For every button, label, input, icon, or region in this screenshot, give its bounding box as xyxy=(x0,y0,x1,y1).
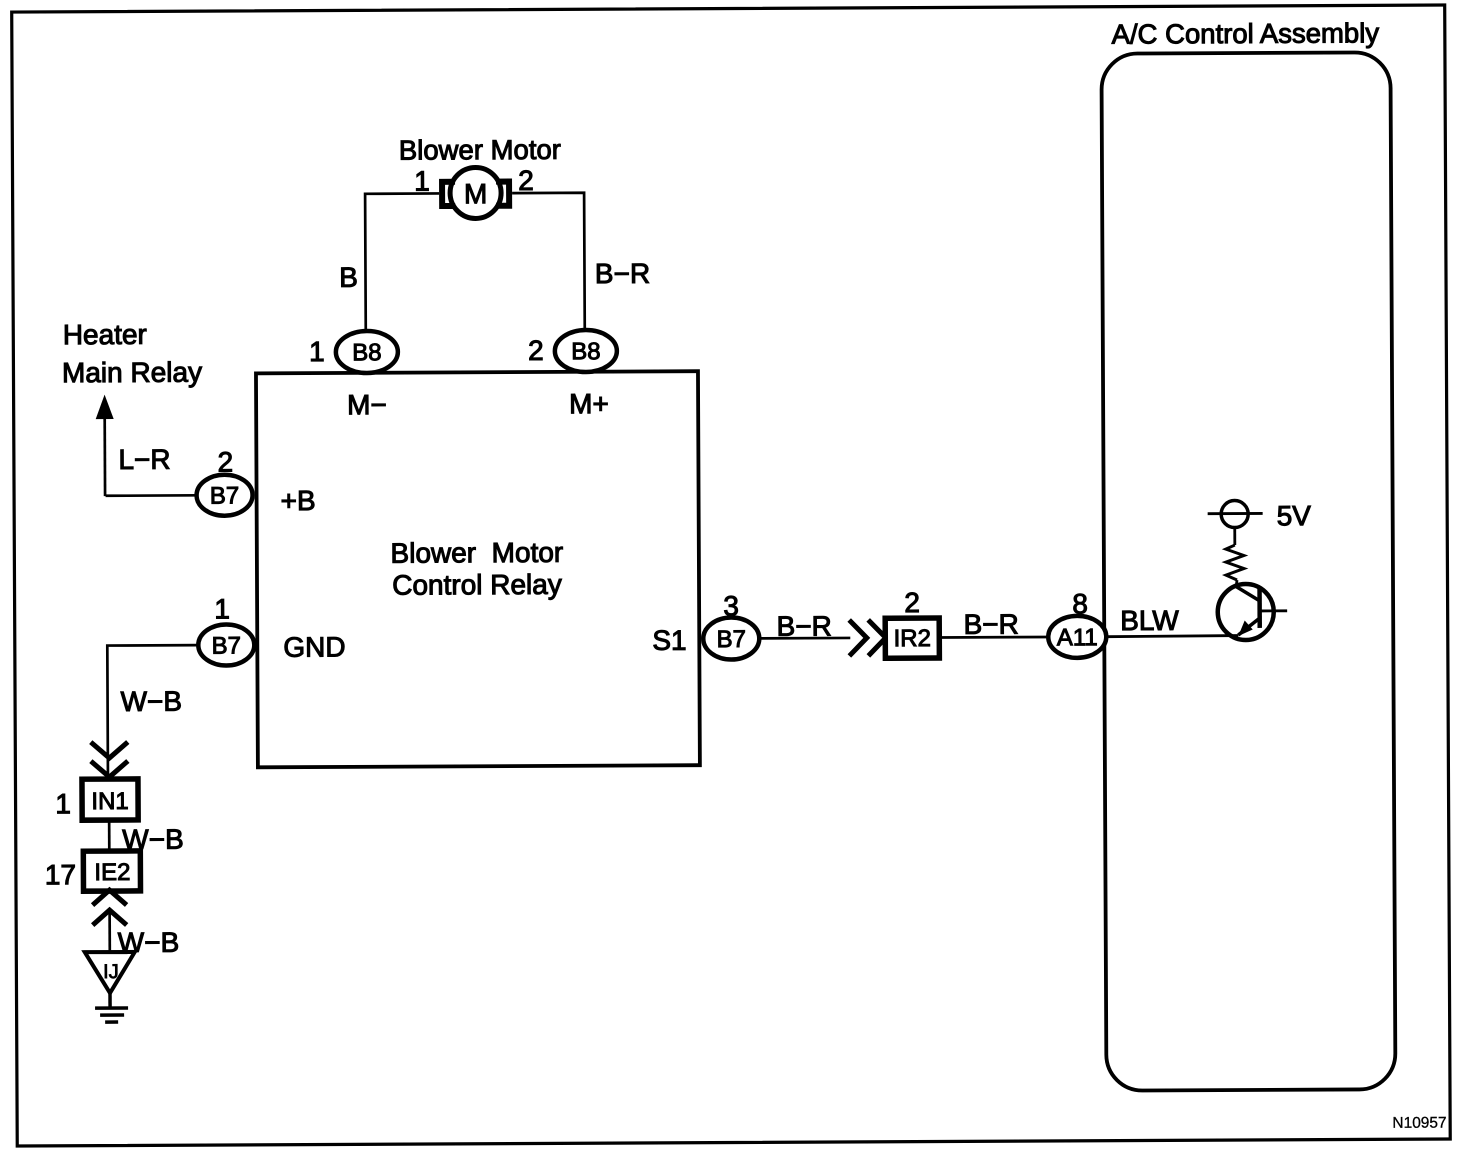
svg-text:Main Relay: Main Relay xyxy=(62,357,202,389)
svg-text:M: M xyxy=(464,178,487,209)
connector B7 pin2 xyxy=(196,475,252,516)
connector IN1 xyxy=(82,779,138,820)
5V supply xyxy=(1208,500,1263,527)
svg-text:2: 2 xyxy=(904,587,920,618)
motor M1 (Blower Motor) xyxy=(442,167,509,218)
resistor R1 (pull-up) xyxy=(1226,545,1244,580)
wire B7 pin1 to IN1 xyxy=(107,645,199,778)
svg-text:GND: GND xyxy=(283,631,345,662)
wire A11 to transistor emitter xyxy=(1106,636,1238,637)
svg-text:B7: B7 xyxy=(212,632,241,659)
svg-text:A/C Control Assembly: A/C Control Assembly xyxy=(1112,17,1380,49)
svg-text:IR2: IR2 xyxy=(894,625,931,652)
svg-text:17: 17 xyxy=(45,859,76,890)
svg-text:IE2: IE2 xyxy=(94,859,130,886)
splice chevrons (wire into IN1) xyxy=(91,742,128,777)
svg-text:1: 1 xyxy=(414,165,430,196)
wire IR2 to A11 xyxy=(939,636,1049,639)
connector B7 pin3 xyxy=(703,617,759,659)
svg-text:Control Relay: Control Relay xyxy=(392,569,562,601)
relay U1 (Blower Motor Control Relay) xyxy=(256,371,700,767)
svg-text:2: 2 xyxy=(218,446,234,477)
svg-text:1: 1 xyxy=(309,336,325,367)
wire IE2 to IJ ground xyxy=(108,910,111,952)
svg-text:8: 8 xyxy=(1072,588,1088,619)
svg-text:L−R: L−R xyxy=(118,444,170,475)
A/C Control Assembly block xyxy=(1101,52,1395,1090)
svg-text:B: B xyxy=(339,262,358,293)
connector IR2 xyxy=(885,618,939,658)
svg-text:S1: S1 xyxy=(652,625,686,656)
svg-text:B7: B7 xyxy=(210,482,239,509)
connector B7 pin1 xyxy=(198,624,254,665)
svg-text:A11: A11 xyxy=(1057,624,1098,651)
wire B7 pin2 to heater main relay xyxy=(106,494,197,497)
svg-text:B7: B7 xyxy=(717,626,746,653)
wire 5V to resistor xyxy=(1233,528,1236,545)
svg-text:B8: B8 xyxy=(352,339,381,366)
svg-text:Blower Motor: Blower Motor xyxy=(390,537,563,569)
svg-text:M−: M− xyxy=(347,389,387,420)
ground connector IJ xyxy=(85,952,135,993)
connector B8 pin2 xyxy=(555,330,617,372)
svg-text:M+: M+ xyxy=(569,388,609,419)
svg-text:BLW: BLW xyxy=(1120,605,1179,636)
wire B7 pin3 to IR2 xyxy=(759,637,850,640)
arrow to Heater Main Relay xyxy=(96,395,114,497)
svg-text:W−B: W−B xyxy=(121,686,183,717)
svg-text:1: 1 xyxy=(214,593,230,624)
wire resistor to transistor collector xyxy=(1236,580,1237,588)
connector A11 pin8 xyxy=(1048,616,1106,658)
svg-text:1: 1 xyxy=(55,788,71,819)
svg-text:2: 2 xyxy=(528,335,544,366)
svg-text:+B: +B xyxy=(281,485,316,516)
svg-text:2: 2 xyxy=(518,165,534,196)
svg-text:Blower Motor: Blower Motor xyxy=(399,134,561,166)
svg-text:B−R: B−R xyxy=(964,609,1019,640)
wire motor pin1 to connector B8 pin1 xyxy=(365,193,440,330)
svg-text:B−R: B−R xyxy=(777,611,832,642)
transistor Q1 xyxy=(1218,584,1288,640)
svg-text:5V: 5V xyxy=(1277,500,1312,531)
svg-text:B8: B8 xyxy=(571,338,600,365)
svg-text:B−R: B−R xyxy=(595,258,650,289)
svg-text:Heater: Heater xyxy=(63,319,147,350)
splice chevrons (wire from IJ) xyxy=(92,890,126,925)
splice chevrons (wire into IR2) xyxy=(849,620,886,656)
wire IN1 to IE2 xyxy=(108,820,111,851)
svg-text:IJ: IJ xyxy=(103,961,119,983)
connector B8 pin1 xyxy=(336,331,398,373)
connector IE2 xyxy=(83,851,140,891)
svg-text:IN1: IN1 xyxy=(91,788,128,815)
svg-text:3: 3 xyxy=(723,590,739,621)
wire motor pin2 to connector B8 pin2 xyxy=(512,193,585,330)
ground symbol xyxy=(95,993,128,1022)
svg-text:N10957: N10957 xyxy=(1392,1115,1446,1132)
